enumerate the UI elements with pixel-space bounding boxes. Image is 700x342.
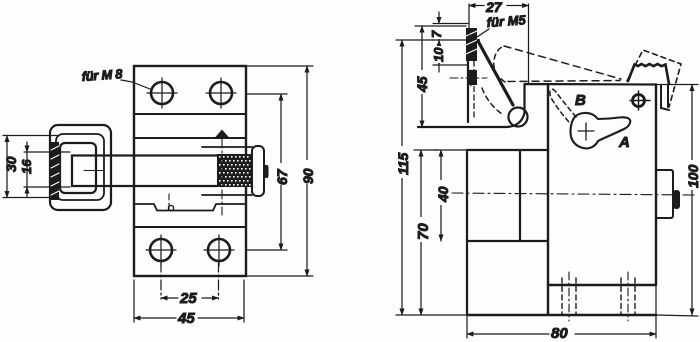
hole bottom-left: [146, 235, 176, 266]
dimension 70: [414, 150, 438, 315]
slide indicator arrow: [215, 130, 230, 139]
side pin tab: [673, 190, 680, 209]
body outline: [467, 84, 656, 315]
cam pivot cross: [578, 123, 594, 140]
svg-text:70: 70: [415, 223, 432, 240]
plate section line bottom: [134, 226, 246, 228]
svg-text:90: 90: [300, 168, 316, 184]
dimension 7 and 10 stack: [432, 12, 468, 72]
bar centerline tick: [84, 170, 103, 172]
svg-text:100: 100: [685, 164, 700, 188]
lever arm: [478, 41, 513, 105]
bolt block: [467, 150, 548, 315]
keeper inner sheet edge: [56, 134, 104, 200]
foot hidden hole 1: [562, 272, 576, 321]
dimension 45 bottom: [134, 280, 244, 322]
label 7: [429, 27, 444, 39]
side pin housing: [656, 170, 673, 218]
svg-text:80: 80: [551, 325, 568, 342]
bolt bar: [72, 156, 217, 187]
svg-text:16: 16: [19, 159, 34, 174]
cam lever solid (position A): [570, 113, 630, 148]
dimension 100: [656, 85, 698, 317]
label fur M5: [477, 12, 527, 37]
slide top edge: [202, 146, 252, 148]
foot hidden hole 2: [621, 272, 635, 321]
bracket bottom edge: [418, 113, 525, 127]
dimension 80: [467, 285, 656, 338]
dimension 27: [469, 4, 529, 83]
svg-text:45: 45: [414, 76, 430, 93]
plate section line top: [134, 113, 246, 115]
centerline through right hole column: [221, 139, 223, 215]
svg-text:A: A: [618, 134, 630, 151]
svg-text:10: 10: [431, 47, 446, 62]
svg-text:7: 7: [429, 30, 444, 38]
hole top-left: [147, 78, 177, 108]
label fur M8: [81, 66, 150, 89]
svg-text:27: 27: [485, 0, 503, 15]
svg-text:30: 30: [3, 156, 19, 172]
centerline tick left hole column: [168, 194, 170, 211]
bolt axis centerline: [452, 193, 694, 195]
keeper window slot: [60, 143, 96, 193]
channel top line: [134, 137, 246, 139]
push button dashed alternate: [627, 50, 681, 107]
svg-text:25: 25: [179, 290, 197, 307]
dimension 115: [396, 40, 467, 315]
svg-text:40: 40: [435, 186, 451, 203]
hole bottom-right: [204, 235, 234, 266]
bracket top edge: [468, 39, 479, 41]
body top edge: [525, 84, 657, 113]
dimension 67: [246, 94, 287, 250]
clamp screw lower body: [468, 70, 477, 85]
svg-text:45: 45: [177, 310, 195, 327]
clamp screw knurled knob: [466, 28, 477, 61]
svg-text:für M 8: für M 8: [81, 66, 124, 84]
bracket wall: [467, 34, 469, 122]
lever-B dashed swing arc: [494, 46, 505, 82]
lever swing dashed arc near pivot: [482, 88, 502, 114]
dimension 25: [161, 262, 219, 299]
slide end cap: [252, 146, 264, 196]
dimension 40: [434, 150, 467, 241]
channel bottom with slot step: [134, 204, 246, 211]
label 10: [431, 46, 446, 63]
slot pin: [168, 205, 173, 210]
dimension 30: [3, 136, 59, 198]
svg-text:B: B: [575, 92, 586, 109]
lever-B dashed lower edge: [508, 81, 620, 82]
screw hole top right: [630, 91, 650, 110]
screw hidden edge dashed: [473, 61, 475, 120]
push button solid: [628, 64, 669, 84]
slide pointer nub: [263, 165, 269, 178]
svg-text:115: 115: [395, 152, 411, 175]
svg-text:67: 67: [274, 168, 290, 185]
dimension 90: [246, 66, 313, 276]
cam dashed (position B): [550, 89, 576, 122]
dimension 16: [24, 142, 70, 197]
keeper knurled strip: [51, 142, 59, 200]
lever pivot roller: [509, 108, 528, 127]
screw axis centerline: [450, 70, 487, 86]
dimension 45 right view: [415, 26, 466, 127]
slide bottom edge: [202, 194, 252, 196]
knurled slide block: [217, 154, 252, 187]
lever-B dashed upper edge: [504, 46, 621, 79]
plate outline: [134, 66, 246, 276]
button shaft in notch: [661, 85, 669, 110]
keeper outer body: [50, 125, 111, 210]
hole top-right: [206, 78, 236, 108]
